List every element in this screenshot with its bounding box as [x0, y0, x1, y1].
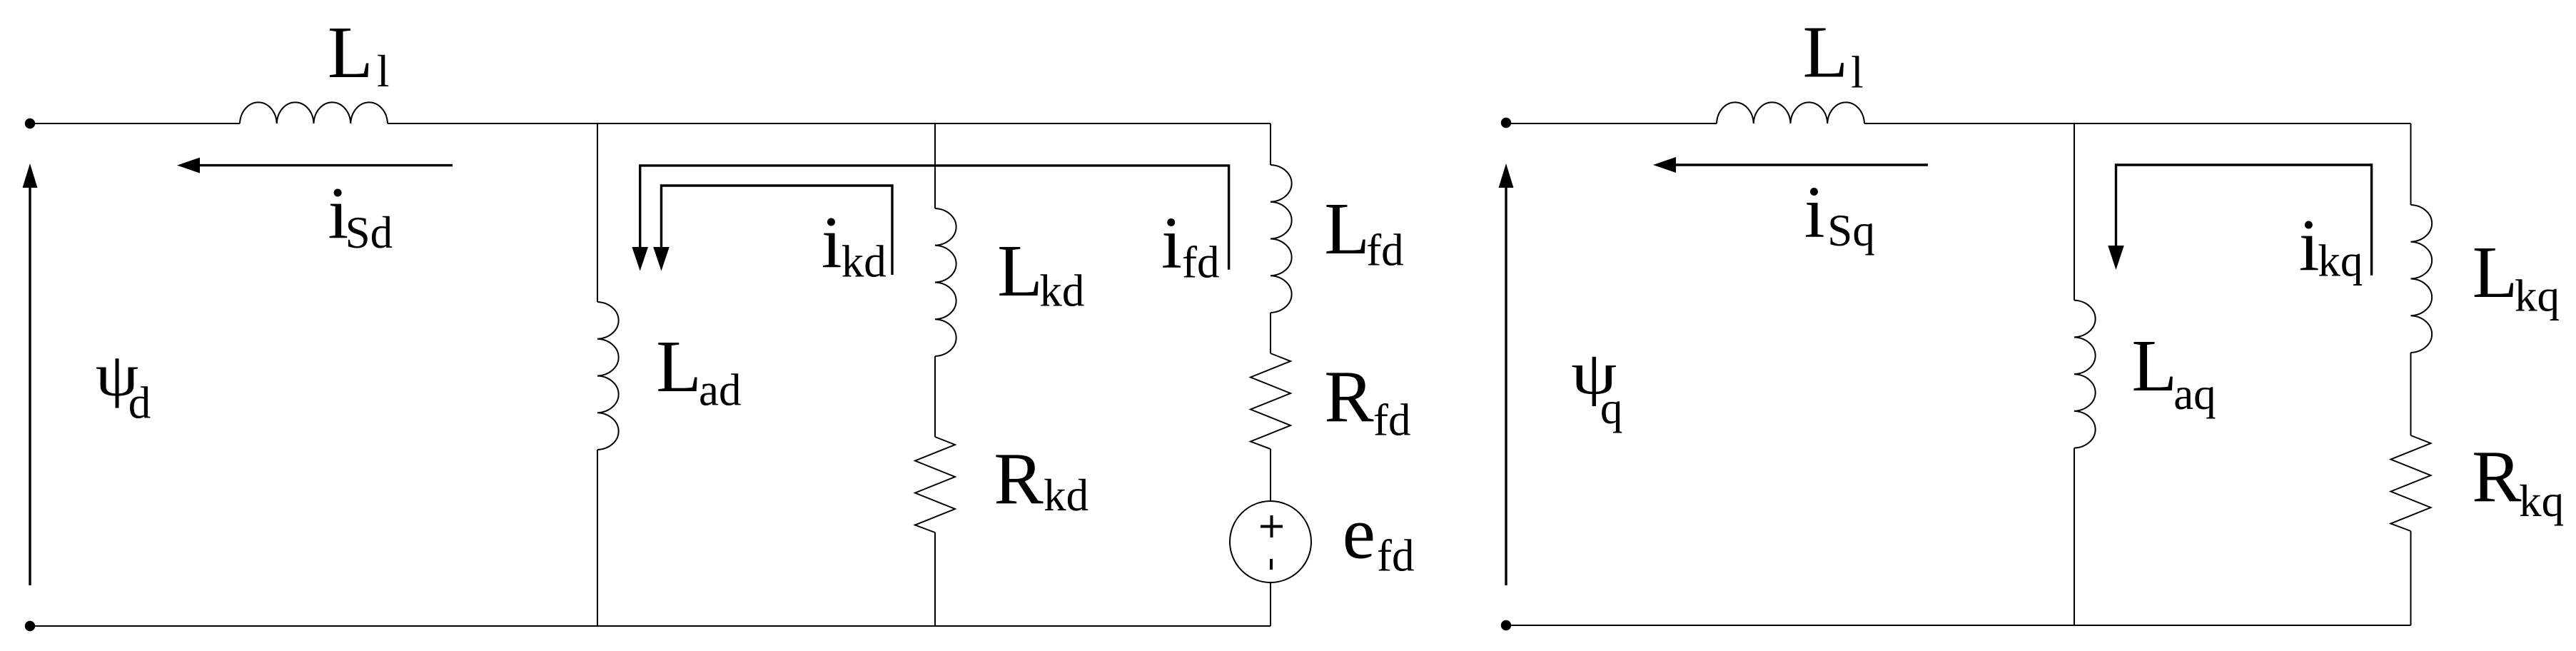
svg-text:R: R — [1324, 355, 1374, 438]
voltage source efd plus sign — [1261, 515, 1283, 538]
svg-text:L: L — [1803, 11, 1849, 94]
wire branch Laq upper — [2074, 123, 2075, 301]
resistor Rkd zigzag — [915, 437, 955, 533]
wire branch Lkq middle — [2410, 353, 2412, 435]
svg-text:fd: fd — [1182, 237, 1219, 287]
wire top q-right segment — [1864, 123, 2411, 124]
svg-text:kq: kq — [2515, 271, 2560, 321]
inductor Lkq coil — [2411, 205, 2433, 353]
wire branch Lkd middle — [934, 356, 936, 437]
resistor Rfd zigzag — [1251, 353, 1290, 449]
svg-text:i: i — [2299, 205, 2320, 287]
inductor Laq coil — [2074, 301, 2096, 448]
wire branch Lfd middle1 — [1270, 313, 1271, 353]
wire branch Lfd lower — [1270, 582, 1271, 626]
inductor L1 (d) coil — [240, 102, 388, 123]
arrow current iSq — [1653, 157, 1928, 173]
wire bottom d — [30, 625, 1271, 627]
arrow flux psi-d — [23, 163, 38, 585]
svg-text:i: i — [1161, 202, 1182, 284]
wire branch Lad upper — [597, 123, 598, 302]
arrow current iSd — [177, 158, 453, 173]
arrow current ikd hook — [653, 186, 892, 275]
wire branch Lkd upper — [934, 123, 936, 208]
svg-text:Sq: Sq — [1827, 206, 1875, 256]
inductor Lad coil — [597, 302, 619, 450]
node terminal dot top-left q — [1501, 118, 1511, 128]
svg-text:L: L — [997, 230, 1043, 312]
inductor Lfd coil — [1271, 165, 1292, 313]
wire branch Lfd upper — [1270, 123, 1271, 165]
svg-text:L: L — [2473, 231, 2518, 313]
svg-text:d: d — [128, 378, 151, 428]
arrow current ikq hook — [2108, 165, 2371, 276]
svg-text:aq: aq — [2173, 369, 2216, 419]
svg-text:kq: kq — [2519, 476, 2564, 526]
wire top q-left segment — [1506, 123, 1717, 124]
inductor Lkd coil — [935, 208, 956, 356]
wire branch Laq lower — [2074, 448, 2075, 625]
resistor Rkq zigzag — [2391, 435, 2431, 531]
voltage source efd circle — [1230, 501, 1311, 582]
svg-text:q: q — [1600, 383, 1623, 433]
wire top d-left segment — [30, 123, 240, 124]
wire branch Lkq upper — [2410, 123, 2412, 205]
node terminal dot bottom-left q — [1501, 620, 1511, 630]
svg-text:kd: kd — [1044, 470, 1089, 520]
svg-text:L: L — [328, 11, 373, 94]
svg-text:L: L — [1324, 188, 1370, 270]
svg-text:R: R — [994, 438, 1044, 520]
svg-text:L: L — [656, 325, 702, 408]
svg-text:ad: ad — [699, 365, 741, 415]
svg-text:L: L — [2132, 325, 2178, 407]
svg-text:fd: fd — [1377, 531, 1414, 581]
inductor L1 (q) coil — [1717, 102, 1864, 123]
svg-text:i: i — [1804, 171, 1825, 253]
wire branch Lad lower — [597, 450, 598, 626]
svg-text:fd: fd — [1366, 226, 1403, 276]
svg-text:kd: kd — [842, 236, 887, 286]
svg-text:Sd: Sd — [345, 208, 393, 258]
svg-text:i: i — [822, 202, 842, 284]
voltage source efd minus sign — [1270, 559, 1273, 570]
svg-text:l: l — [377, 46, 390, 96]
svg-text:e: e — [1343, 492, 1375, 574]
wire branch Lfd middle2 — [1270, 449, 1271, 501]
node terminal dot bottom-left d — [25, 621, 35, 631]
node terminal dot top-left d — [25, 118, 35, 128]
svg-text:l: l — [1851, 48, 1864, 98]
wire branch Lkq lower — [2410, 531, 2412, 625]
svg-text:R: R — [2472, 436, 2522, 518]
wire top d-right segment — [388, 123, 1271, 124]
arrow flux psi-q — [1499, 163, 1514, 585]
svg-text:fd: fd — [1373, 395, 1410, 445]
arrow current ifd hook — [632, 166, 1228, 271]
svg-text:kq: kq — [2318, 236, 2363, 286]
wire bottom q — [1506, 625, 2411, 626]
svg-text:kd: kd — [1039, 266, 1084, 316]
wire branch Lkd lower — [934, 533, 936, 626]
